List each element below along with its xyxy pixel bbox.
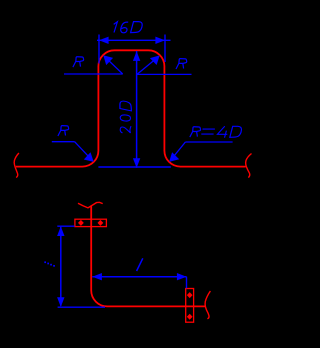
left dimension top terminator: [57, 225, 74, 227]
top break symbol (wavy): [78, 202, 103, 208]
label 20D (rotated): [120, 101, 131, 133]
l dimension line (horizontal): [92, 276, 186, 278]
leader R top-right: diagonal: [137, 57, 158, 75]
leader R top-left: shelf: [64, 73, 123, 75]
leader R mid-left: diagonal: [75, 142, 93, 161]
left dimension top arrow: [57, 226, 64, 236]
label 16D: [114, 22, 143, 33]
label R top-left: [73, 57, 84, 67]
gauge mark frame (right): [186, 289, 194, 323]
leader R=4D: diagonal: [171, 142, 186, 160]
label R mid-left: [58, 126, 69, 136]
16D right arrow: [155, 37, 165, 44]
right break symbol: [205, 291, 210, 319]
leader R mid-left: shelf: [52, 141, 75, 143]
leader R=4D: arrowhead: [169, 152, 179, 162]
leader R mid-left: arrowhead: [84, 152, 94, 162]
right break symbol: [246, 154, 252, 178]
leader R top-right: shelf: [137, 73, 192, 75]
dimension baseline between feet (blue): [98, 166, 170, 168]
label R= 4D: [190, 126, 242, 138]
16D extension line right: [164, 35, 166, 63]
left dimension dotted label: [44, 261, 55, 266]
left dimension line (vertical): [60, 227, 62, 306]
l dimension left arrow: [92, 273, 102, 280]
16D left arrow: [99, 37, 109, 44]
16D dimension line: [97, 39, 171, 41]
gauge mark frame (top): [75, 219, 107, 226]
label R top-right: [176, 59, 187, 69]
gauge diamond left: [78, 220, 84, 226]
20D dimension line (vertical center): [136, 51, 138, 168]
gauge diamond right: [98, 220, 104, 226]
16D extension line left: [98, 35, 100, 64]
label l (italic stroke): [137, 258, 143, 271]
left dimension bottom terminator: [58, 306, 105, 308]
l dimension right extension: [186, 277, 188, 289]
l dimension right arrow: [177, 273, 187, 280]
left dimension bottom arrow: [57, 297, 64, 307]
leader R top-right: arrowhead: [150, 55, 160, 65]
leader R top-left: diagonal: [105, 57, 123, 74]
specimen bar (red L-shape): [91, 206, 205, 307]
20D top arrow: [133, 51, 140, 61]
specimen profile (red hat shape): [16, 50, 246, 166]
gauge diamond bottom: [187, 314, 193, 320]
gauge diamond top: [187, 292, 193, 298]
20D bottom arrow: [133, 158, 140, 168]
leader R=4D: shelf: [185, 141, 232, 143]
left break symbol: [14, 153, 19, 178]
leader R top-left: arrowhead: [103, 55, 113, 65]
